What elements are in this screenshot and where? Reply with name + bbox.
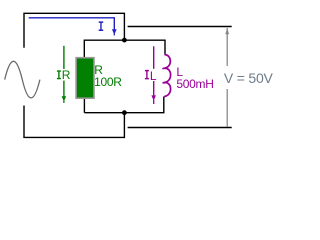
wire to voltmeter top: [128, 26, 232, 28]
svg-text:R: R: [62, 68, 71, 82]
resistor R body: [76, 58, 94, 98]
current arrow IR (green): [63, 46, 65, 97]
wire to voltmeter bottom: [128, 127, 232, 129]
node A junction dot top: [122, 38, 127, 43]
wire bottom loop: junction B to source bottom: [24, 106, 124, 138]
svg-text:100R: 100R: [94, 75, 122, 89]
current label IR (green): [55, 69, 70, 81]
current label IL (purple): [144, 69, 157, 81]
current arrow I (blue) along top wire: [29, 18, 115, 30]
inductor L coil: [163, 55, 171, 97]
wire bottom rail: resistor to inductor: [84, 97, 163, 113]
svg-text:500mH: 500mH: [176, 77, 213, 91]
wire resistor bottom lead: [83, 98, 85, 113]
wire top rail: resistor top to inductor top: [84, 40, 165, 58]
AC source V1 sine wave: [5, 61, 40, 98]
wire top loop: source top to junction A: [24, 13, 124, 48]
svg-text:V = 50V: V = 50V: [224, 70, 274, 86]
voltmeter arrow line (gray): [226, 28, 228, 66]
node B junction dot bottom: [122, 110, 127, 115]
current arrow IL (purple): [153, 46, 155, 95]
svg-text:L: L: [150, 69, 157, 83]
current label I (blue): [99, 21, 104, 31]
